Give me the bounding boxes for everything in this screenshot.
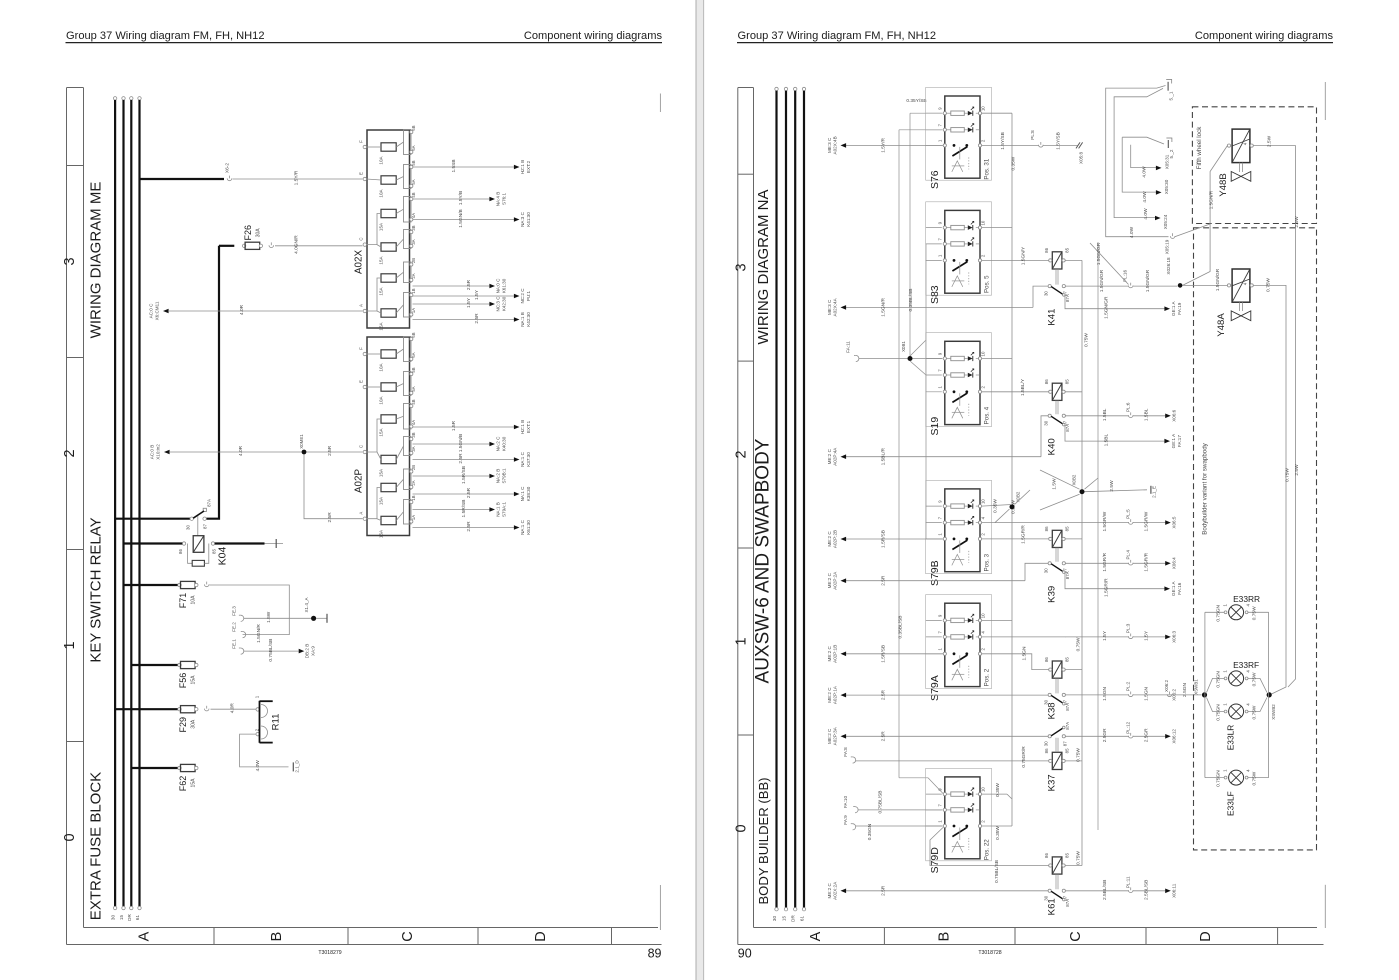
svg-text:1.5BL/R: 1.5BL/R [881,448,887,466]
relay K41 [1044,247,1071,325]
svg-text:WIRING DIAGRAM NA: WIRING DIAGRAM NA [755,189,772,344]
svg-text:30: 30 [1044,568,1049,573]
wire K40 contact 87A to GE:1 A FA:17 [1065,425,1165,442]
svg-text:X05:31: X05:31 [1164,154,1169,169]
svg-text:X6:CM11: X6:CM11 [155,301,160,320]
svg-text:1.5GN/B: 1.5GN/B [458,434,464,452]
solenoid valve Y48A [1216,269,1253,337]
svg-text:NC:3 C: NC:3 C [495,296,500,312]
svg-text:T3018728: T3018728 [978,950,1001,956]
svg-text:X05:8: X05:8 [1079,152,1084,164]
svg-text:K40:30: K40:30 [502,436,507,451]
svg-text:2.5GR: 2.5GR [1144,728,1150,742]
svg-text:2B: 2B [411,258,416,263]
svg-text:NA:2 B: NA:2 B [495,469,500,484]
svg-text:1.5GR/R: 1.5GR/R [1020,525,1026,544]
svg-text:7: 7 [937,369,942,372]
svg-text:15A: 15A [379,496,384,505]
svg-text:2: 2 [981,139,986,142]
svg-text:1.5GN/GR: 1.5GN/GR [1096,242,1102,265]
bus wire DR (page 90) [791,87,797,922]
svg-text:1: 1 [937,386,942,389]
svg-text:87A: 87A [1065,424,1070,432]
svg-text:A: A [359,512,364,515]
wire S79B pin2 to K39 coil 86 [982,525,1049,544]
svg-text:FA:16: FA:16 [1177,582,1182,594]
switch S79A enclosure [926,595,992,689]
svg-text:Pos. 22: Pos. 22 [984,839,991,861]
svg-text:2.5R: 2.5R [881,731,887,742]
svg-text:K04: K04 [217,547,229,566]
wire ME:2 C A02P:3A to K37 contact 30 [827,726,1048,745]
svg-text:1: 1 [62,641,78,649]
svg-text:A02P: A02P [354,469,365,493]
wire A02X output 1.5SB to HZ:1 B EXT:2 [413,159,532,174]
wire 0.35W trunk from S76 pin 10 [982,113,1017,840]
svg-text:4A: 4A [411,420,416,425]
svg-text:85: 85 [1065,379,1070,384]
svg-text:1.5Y/R: 1.5Y/R [294,170,300,185]
svg-text:86: 86 [178,549,183,554]
svg-text:ME:2 C: ME:2 C [827,448,832,464]
svg-text:1: 1 [255,695,260,698]
svg-text:K40: K40 [1047,438,1058,455]
svg-text:0.75GN: 0.75GN [1216,605,1222,622]
svg-text:K41:30: K41:30 [526,212,531,227]
svg-text:30: 30 [111,915,116,921]
svg-text:1.5GR/W: 1.5GR/W [1144,511,1150,531]
svg-text:15: 15 [119,915,124,921]
svg-text:4: 4 [981,631,986,634]
fuse F26 [242,225,273,249]
connector FE.2 [232,622,262,643]
svg-text:4.0W: 4.0W [1143,208,1149,220]
svg-text:87A: 87A [1065,703,1070,711]
switch S79D enclosure [926,768,992,861]
svg-text:S79A: S79A [929,675,941,701]
svg-text:Pos. 4: Pos. 4 [984,406,991,424]
diagram frame [67,88,662,945]
svg-text:Bodybuilder variant for swapbo: Bodybuilder variant for swapbody [1201,442,1208,534]
splice XSWB1 [1194,679,1208,698]
fuse block A02X [354,125,417,330]
svg-text:85: 85 [1065,247,1070,252]
svg-text:1.5GN: 1.5GN [1021,646,1027,660]
svg-text:4.0W: 4.0W [1142,191,1148,203]
svg-text:A02X: A02X [354,250,365,274]
svg-text:A02P:1B: A02P:1B [833,645,838,663]
svg-text:D: D [1198,931,1214,941]
svg-text:NC:2 C: NC:2 C [520,288,525,304]
wire 0.35BL/SB vertical trunk [897,130,943,794]
svg-text:ME:2 C: ME:2 C [827,728,832,744]
svg-text:1.5GN/GR: 1.5GN/GR [1099,269,1105,292]
svg-text:30: 30 [1044,291,1049,296]
wire A02X pin A to connector AC:0 C X6:CM11 [149,301,363,320]
connector FA:11 [845,341,859,362]
svg-text:1.5GR/R: 1.5GR/R [1104,578,1110,597]
switch S79D [926,777,991,874]
wire A02X output 2.5R to NA:0 C K61:30 [413,278,507,293]
svg-text:ME:2 C: ME:2 C [827,572,832,588]
svg-text:K39: K39 [1047,586,1058,603]
svg-text:X06:6: X06:6 [1172,409,1177,421]
svg-text:2A: 2A [411,480,416,485]
svg-text:10: 10 [981,499,986,504]
wire S79A pin4 to X06:3 [982,636,1067,638]
switch S19 enclosure [926,333,992,427]
svg-text:4: 4 [1242,282,1247,285]
svg-text:15A: 15A [379,468,384,477]
svg-text:4.0W: 4.0W [1129,226,1135,238]
svg-text:87A: 87A [1065,722,1070,730]
svg-text:90: 90 [738,947,752,961]
wire A02P output 1.5GN/B to NA:2 C K40:30 [413,434,507,452]
svg-text:0.75W: 0.75W [1251,606,1257,620]
svg-text:30A: 30A [255,228,261,238]
svg-text:HZ:1 B: HZ:1 B [520,420,525,434]
connector FA:9 wire to S79D pin 1 [843,815,942,840]
wire A02X output 2.5R to NA:1 B K42:30 [413,312,532,327]
svg-text:X06:12: X06:12 [1172,729,1177,744]
svg-text:ME:2 C: ME:2 C [827,531,832,547]
svg-text:PL:3: PL:3 [1126,623,1131,633]
dashed box Fifth wheel lock [1192,107,1316,224]
svg-text:PL:12: PL:12 [1126,721,1131,733]
svg-text:ME:3 C: ME:3 C [827,137,832,153]
fuse F29 [115,706,209,733]
svg-text:0.75W: 0.75W [1076,748,1082,762]
svg-text:NA:2 C: NA:2 C [495,436,500,451]
svg-text:3: 3 [62,257,78,265]
svg-text:3B: 3B [411,225,416,230]
svg-text:S79A:1: S79A:1 [502,502,507,518]
svg-text:E33RF: E33RF [1233,660,1259,670]
svg-text:6A: 6A [411,352,416,357]
svg-text:85: 85 [1065,657,1070,662]
svg-text:4A: 4A [411,213,416,218]
wire Y48A pin 1.5GN/GR [1183,268,1228,291]
svg-text:K61:30: K61:30 [502,278,507,293]
svg-text:2.5R: 2.5R [327,445,333,456]
wire K41 contact 87 to X026:18 and Y48A [1066,257,1178,292]
svg-text:PL:11: PL:11 [1126,876,1131,888]
svg-text:2: 2 [981,820,986,823]
wire ME:2 C A02X:2A to K61 contact 30 [827,881,1048,900]
svg-text:87A: 87A [207,499,212,507]
svg-text:EXTRA FUSE BLOCK: EXTRA FUSE BLOCK [88,772,105,920]
svg-text:X06:5: X06:5 [1172,516,1177,528]
svg-text:5A: 5A [411,386,416,391]
wire ME:2 C A02P:4A to K40 contact 30 [827,416,1048,466]
svg-text:87A: 87A [1065,571,1070,579]
svg-text:X6-2: X6-2 [225,163,231,173]
svg-text:0.35W: 0.35W [993,499,999,513]
svg-text:X0B2: X0B2 [1072,474,1077,485]
svg-text:4: 4 [1246,604,1251,607]
svg-text:4: 4 [981,516,986,519]
svg-text:Pos. 2: Pos. 2 [984,668,991,686]
svg-text:0.75BL/SB: 0.75BL/SB [268,639,274,662]
svg-text:Group 37 Wiring diagram FM, FH: Group 37 Wiring diagram FM, FH, NH12 [66,30,265,42]
svg-text:WIRING DIAGRAM ME: WIRING DIAGRAM ME [88,182,105,339]
svg-text:F56: F56 [178,673,188,689]
bus wire 61 (page 89) [135,97,141,920]
wire A02P output 2.5R to NA:1 C K38:30 [413,486,532,501]
svg-text:9: 9 [937,614,942,617]
svg-text:F: F [359,140,364,143]
svg-text:1: 1 [733,637,749,645]
wire A02X output 1.5Y to NC:2 C PU:1 [413,288,532,304]
svg-text:K38:30: K38:30 [526,486,531,501]
svg-text:DR: DR [791,915,796,922]
svg-text:2.5W: 2.5W [1294,216,1300,228]
wire F26 to A02X pin C [275,235,363,254]
svg-text:1.5Y/R: 1.5Y/R [881,138,887,153]
svg-text:D: D [533,931,549,941]
svg-text:FA:10: FA:10 [843,796,848,808]
svg-text:2.5R: 2.5R [466,279,472,290]
fuse F71 [124,581,210,608]
svg-text:Y48B: Y48B [1218,173,1229,196]
svg-text:Group 37 Wiring diagram FM, FH: Group 37 Wiring diagram FM, FH, NH12 [738,30,937,42]
svg-text:0.35W: 0.35W [995,826,1001,840]
svg-text:15A: 15A [191,778,197,788]
svg-text:86: 86 [1044,853,1049,858]
connector FA:10 wire to S79D pin 7 [843,791,942,814]
svg-text:EXT:1: EXT:1 [526,420,531,433]
svg-text:30: 30 [772,916,777,922]
svg-text:2.5BL/SB: 2.5BL/SB [1144,880,1150,900]
svg-text:A02P:2A: A02P:2A [833,571,838,590]
svg-text:85: 85 [1065,748,1070,753]
wire K61 contact 87 to X06:11 [1066,876,1177,900]
svg-text:0: 0 [733,824,749,832]
svg-text:NA:1 B: NA:1 B [520,312,525,327]
wire FA:8 to K37 coil 86 [843,746,1048,768]
svg-text:5A: 5A [411,179,416,184]
wire A02P output 1.5R to HZ:1 B EXT:1 [413,420,532,434]
svg-text:X10:in2: X10:in2 [156,444,161,460]
svg-text:B: B [937,932,953,942]
svg-text:86: 86 [1044,379,1049,384]
svg-text:9: 9 [937,500,942,503]
resistor R11 [255,695,282,743]
wire A02P output 2.5R to NA:1 C K37:30 [413,451,532,466]
lamp E33RF [1216,660,1260,688]
svg-text:0.75W: 0.75W [1266,278,1272,292]
svg-text:87A: 87A [1065,899,1070,907]
svg-text:1.5SB: 1.5SB [451,159,457,172]
svg-text:4.0R: 4.0R [238,445,244,456]
wire F29 to resistor R11 [211,703,257,714]
svg-text:4.0GN/R: 4.0GN/R [294,235,300,254]
svg-text:ME:2 C: ME:2 C [827,645,832,661]
svg-text:ME:3 C: ME:3 C [827,299,832,315]
wire K39 contact 87A to GE:1 A FA:16 [1065,572,1165,589]
svg-text:1.5BL/Y: 1.5BL/Y [1020,378,1026,396]
svg-text:7: 7 [937,804,942,807]
svg-text:1.5GN/R: 1.5GN/R [256,624,262,643]
column scale letters [808,931,1214,941]
bus wire 61 (page 90) [800,87,806,921]
svg-text:FE.3: FE.3 [232,606,237,616]
svg-text:S19: S19 [929,417,941,436]
wire bus-15 to K04 coil 86 (thick) [124,542,183,544]
wire lamp feed trunk left [1205,612,1225,777]
dashed box Bodybuilder variant for swapbody [1194,228,1317,850]
page gap divider [696,0,705,980]
svg-text:2: 2 [981,254,986,257]
fuse block A02P [354,332,417,538]
svg-text:E: E [359,172,364,175]
svg-text:A02X:2A: A02X:2A [833,881,838,900]
svg-text:86: 86 [1044,526,1049,531]
svg-text:15A: 15A [379,222,384,231]
svg-text:DR: DR [127,914,132,921]
svg-text:XSWB2: XSWB2 [1271,704,1276,720]
solenoid valve Y48B [1218,129,1253,197]
svg-text:2.5GR: 2.5GR [1102,728,1108,742]
wire lamp return trunk right [1248,612,1269,777]
wire A02X output 1.5Y/B to NA:4 B S76:1 [413,191,507,206]
svg-text:1.5Y: 1.5Y [1102,630,1108,641]
svg-text:1.5Y/SB: 1.5Y/SB [1056,132,1062,150]
svg-text:S79D: S79D [929,847,941,874]
svg-text:A02P:1A: A02P:1A [833,685,838,704]
wire A02P output 1.5R/SB to NA:1 B S79A:1 [413,500,507,518]
wire F71 to splice and connectors FE [210,585,290,635]
svg-text:1.5BL: 1.5BL [1104,434,1110,447]
svg-text:2: 2 [981,533,986,536]
switch S76 [926,96,991,189]
svg-text:C: C [359,238,364,241]
svg-text:2.5R: 2.5R [466,487,472,498]
wire K39 contact 87 to X06:4 [1066,550,1177,572]
svg-text:2.5R: 2.5R [327,512,333,523]
svg-text:2.5W: 2.5W [1267,135,1273,147]
svg-text:A02P:2B: A02P:2B [833,530,838,548]
svg-text:1.5BL: 1.5BL [1102,408,1108,421]
svg-text:0.75GN: 0.75GN [1216,770,1222,787]
svg-text:7: 7 [937,516,942,519]
wire S83 pin2 to K41 coil 86 [982,246,1049,265]
svg-text:7: 7 [937,238,942,241]
svg-text:0.75BL/SB: 0.75BL/SB [877,791,883,814]
wire S19 pin2 to K40 coil 86 [982,378,1049,396]
svg-text:4.0R: 4.0R [230,703,236,714]
svg-text:FE.2: FE.2 [232,622,237,632]
splice X1.4_A and ground [304,597,327,623]
wire K38 contact 87 to X06:2 and swapbody lamps [1066,680,1202,701]
svg-text:1.5GR/W: 1.5GR/W [1102,511,1108,531]
svg-text:1.5GN/R: 1.5GN/R [881,298,887,317]
svg-text:PL:5: PL:5 [1126,509,1131,519]
svg-text:FA:9: FA:9 [843,815,848,825]
wire Y48A to 0.75W down [1253,278,1290,694]
svg-text:1.5GN/GR: 1.5GN/GR [1145,269,1151,292]
svg-text:Pos. 3: Pos. 3 [984,553,991,571]
wire R11 pin2 to ground 2.1_D [240,734,300,773]
svg-text:30A: 30A [191,719,197,729]
svg-text:K61:30: K61:30 [526,520,531,535]
wire 4.0W to X05:31 [1131,145,1170,178]
svg-text:2.1_E: 2.1_E [1152,486,1157,498]
svg-text:A: A [808,931,824,941]
svg-text:1A: 1A [411,308,416,313]
wire ME:2 C A02P:1B to S79A pin 1 [827,645,943,663]
svg-text:10: 10 [981,613,986,618]
svg-text:2.5R: 2.5R [881,690,887,701]
svg-text:0.75W: 0.75W [1285,468,1291,482]
svg-text:87: 87 [203,524,208,529]
svg-text:S83: S83 [929,285,941,304]
svg-text:1.5GR/R: 1.5GR/R [1144,552,1150,571]
svg-text:2.5W: 2.5W [1109,480,1115,492]
svg-text:S79B: S79B [929,560,941,586]
svg-text:F29: F29 [178,717,188,733]
switch S79B [926,489,991,586]
svg-text:GE:1 A: GE:1 A [1171,580,1176,595]
svg-text:15A: 15A [379,286,384,295]
svg-text:X05:24: X05:24 [1163,214,1168,229]
svg-text:1B: 1B [411,288,416,293]
svg-text:ME:2 C: ME:2 C [827,687,832,703]
svg-text:1.5GN/R: 1.5GN/R [1209,190,1215,209]
svg-text:85: 85 [1065,853,1070,858]
page header [737,30,1333,43]
svg-text:DB:2 B: DB:2 B [305,644,310,659]
svg-text:C: C [1068,931,1084,941]
svg-text:2: 2 [981,386,986,389]
svg-text:0.35Y/SB: 0.35Y/SB [906,98,926,104]
svg-text:86: 86 [1044,748,1049,753]
wire X0B2 to ground 2.1_E [1085,480,1157,498]
bus wire 30 (page 90) [772,87,778,921]
svg-text:1: 1 [937,820,942,823]
switch S79B enclosure [926,480,992,573]
svg-text:0.75BL/SB: 0.75BL/SB [994,860,1000,883]
svg-text:1.5Y/B: 1.5Y/B [458,191,464,205]
svg-text:X06:3: X06:3 [1172,630,1177,642]
svg-text:FA:11: FA:11 [845,341,850,353]
svg-text:AC:0 C: AC:0 C [149,303,154,318]
switch S19 [926,341,991,435]
svg-text:C: C [359,445,364,448]
wire S76 pin2 to X05:8 [982,130,1084,164]
relay K39 [1044,526,1071,603]
svg-text:1B: 1B [411,495,416,500]
svg-text:1.5W: 1.5W [1052,478,1058,490]
relay K38 [1044,657,1071,720]
svg-text:0.75W: 0.75W [1084,333,1090,347]
svg-text:X06:2: X06:2 [1164,680,1169,692]
svg-text:2: 2 [981,648,986,651]
wire bus-61 to connector X6-2 and A02X pin E [140,163,363,186]
svg-text:FA:8: FA:8 [843,747,848,757]
svg-text:2.5R: 2.5R [881,885,887,896]
bus wire 15 (page 89) [119,97,125,920]
svg-text:X06:4: X06:4 [1172,557,1177,569]
svg-text:1A: 1A [411,515,416,520]
svg-text:GE:1 A: GE:1 A [1171,433,1176,448]
bus wire 30 (page 89) [111,97,117,920]
svg-text:2.5R: 2.5R [458,453,464,464]
wire S79A pin2 to K38 coil 86 [982,646,1049,670]
svg-text:2.5R: 2.5R [466,521,472,532]
wire 1.5GN/GR diagonal to PL:16 [1090,242,1129,284]
svg-text:61: 61 [800,916,805,922]
